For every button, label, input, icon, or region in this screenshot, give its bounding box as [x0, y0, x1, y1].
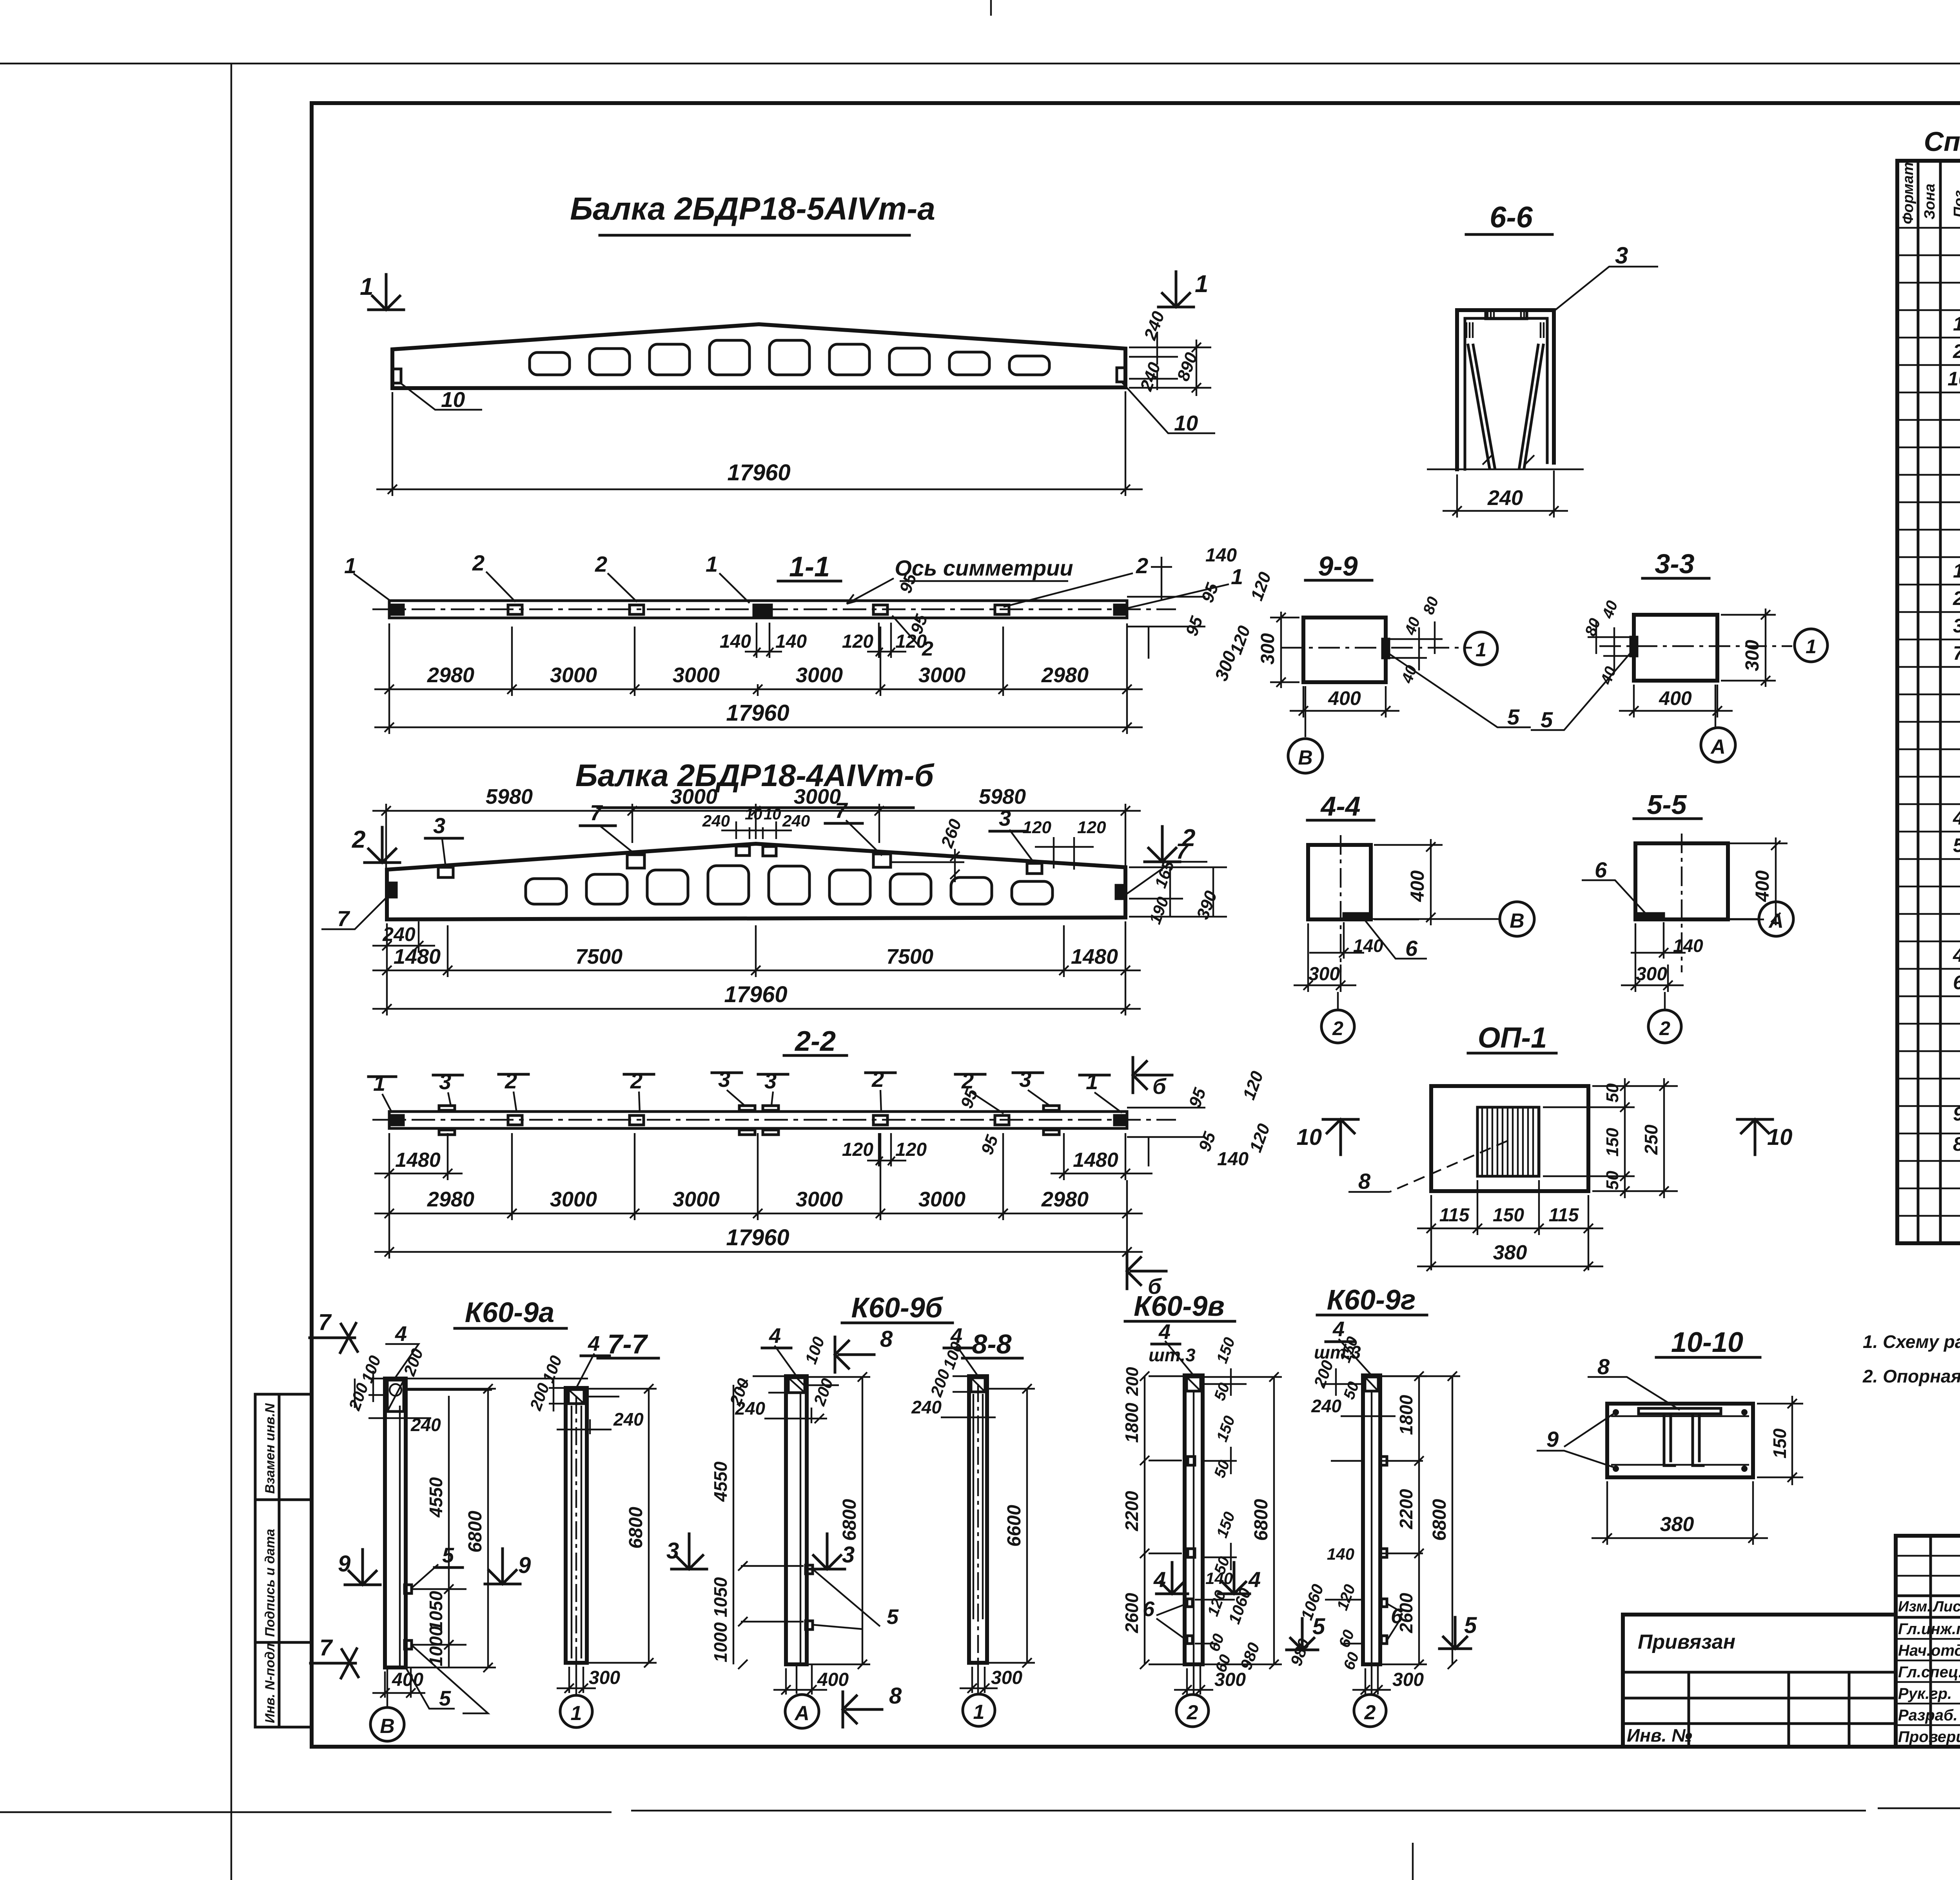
svg-text:1480: 1480 — [395, 1149, 441, 1172]
svg-text:6: 6 — [1405, 936, 1418, 961]
section 5-5 dim 400 — [1728, 837, 1788, 925]
column K60-9a plates pos5 on right face — [405, 1585, 412, 1649]
svg-text:6800: 6800 — [626, 1507, 646, 1549]
svg-text:120: 120 — [1023, 818, 1052, 837]
svg-text:140: 140 — [1205, 1569, 1233, 1588]
svg-text:3: 3 — [433, 813, 445, 838]
scan: bottom centre fold tick — [1412, 1843, 1414, 1880]
section 1-1 embedded plates — [390, 605, 1126, 615]
svg-text:В: В — [1510, 910, 1524, 932]
section 9-9 axis B circle — [1305, 686, 1306, 737]
svg-text:К60-9в: К60-9в — [1134, 1291, 1225, 1322]
section 6-6 dim 240 — [1443, 470, 1568, 518]
svg-text:7: 7 — [1176, 839, 1189, 863]
svg-text:120: 120 — [1077, 818, 1106, 837]
svg-text:1: 1 — [1195, 271, 1208, 298]
svg-text:240: 240 — [1487, 486, 1523, 510]
svg-text:7: 7 — [835, 798, 848, 823]
beam1 right label 10 with leader — [1122, 382, 1215, 433]
scan: top left small tick — [990, 0, 992, 16]
svg-text:5: 5 — [1953, 834, 1960, 856]
beam2 elevation outline — [387, 844, 1125, 919]
svg-text:2: 2 — [1659, 1017, 1670, 1039]
beam2 top dim row 5980 3000 3000 5980 — [372, 804, 1141, 868]
section 7-7 column body — [566, 1388, 587, 1663]
svg-text:А: А — [794, 1702, 809, 1725]
beam2 right end plate (pos 7) — [1116, 885, 1125, 899]
svg-text:140: 140 — [1673, 935, 1703, 956]
column K60-9v right dims 150 50 pairs — [1203, 1368, 1247, 1570]
beam2 right end dims 165 190 390 — [1129, 867, 1227, 917]
beam2 roof plate pos3 left — [438, 867, 453, 877]
svg-text:1: 1 — [1475, 639, 1486, 661]
svg-text:4: 4 — [1953, 807, 1960, 829]
svg-text:К60-9а: К60-9а — [465, 1297, 554, 1328]
svg-text:1-1: 1-1 — [789, 551, 830, 583]
svg-text:5: 5 — [887, 1605, 899, 1629]
svg-text:5-5: 5-5 — [1647, 789, 1687, 820]
svg-text:400: 400 — [1659, 687, 1692, 709]
svg-text:6600: 6600 — [1004, 1505, 1025, 1547]
column K60-9a dim 6800 — [406, 1384, 496, 1672]
svg-text:6: 6 — [1953, 972, 1960, 994]
column K60-9g right dims 1800 2200 2600 — [1380, 1376, 1427, 1664]
svg-text:1: 1 — [1806, 636, 1817, 658]
column K60-9v axis 2 — [1193, 1664, 1194, 1694]
beam2 section mark 2 (right) — [1145, 825, 1195, 862]
svg-text:2980: 2980 — [427, 663, 474, 687]
spec table column lines — [1918, 161, 1960, 1243]
svg-text:4: 4 — [1332, 1317, 1345, 1341]
section 1-1 dim 120 120 — [867, 623, 906, 658]
svg-text:А: А — [1768, 910, 1784, 932]
svg-text:150: 150 — [1603, 1128, 1622, 1157]
svg-text:Рук.гр.: Рук.гр. — [1898, 1685, 1952, 1702]
svg-text:10: 10 — [1174, 411, 1198, 435]
svg-text:9: 9 — [518, 1553, 531, 1578]
scan: left paper edge vertical line — [230, 64, 232, 1880]
section 3-3 block — [1634, 615, 1717, 681]
column K60-9b axis A — [796, 1664, 797, 1694]
section 9-9 dims 40 80 40 — [1390, 621, 1443, 670]
svg-text:150: 150 — [1493, 1205, 1524, 1226]
section 9-9 right edge plate pos5 — [1383, 639, 1389, 658]
svg-text:3-3: 3-3 — [1655, 549, 1694, 579]
svg-text:К60-9б: К60-9б — [851, 1292, 944, 1324]
svg-text:Балка 2БДР18-4АIVт-б: Балка 2БДР18-4АIVт-б — [575, 758, 935, 793]
section 1-1 callout 1c — [1126, 584, 1229, 609]
column K60-9b dims 4550 1050 1000 — [733, 1380, 804, 1669]
svg-text:1000: 1000 — [710, 1622, 731, 1662]
section 4-4 axis 2 circle — [1321, 1010, 1354, 1043]
svg-text:5: 5 — [439, 1687, 451, 1710]
beam 2BDR18-5AIVt-a elevation outline — [392, 324, 1125, 388]
svg-text:5980: 5980 — [979, 785, 1026, 808]
section 9-9 dim 400 — [1290, 686, 1399, 717]
svg-text:Проверил: Проверил — [1898, 1728, 1960, 1746]
svg-text:4: 4 — [1953, 944, 1960, 966]
svg-text:7: 7 — [319, 1635, 333, 1660]
svg-text:2. Опорная подушка замарк: 2. Опорная подушка замаркирована на лист… — [1862, 1366, 1960, 1386]
name rows lines — [1896, 1616, 1960, 1619]
svg-text:6: 6 — [1595, 857, 1607, 882]
section 1-1 dim 140 140 at centre — [745, 623, 782, 658]
section 5-5 axis A — [1728, 918, 1758, 920]
svg-text:1480: 1480 — [1071, 945, 1118, 968]
column K60-9a top cap plate pos4 — [387, 1380, 404, 1411]
svg-text:140: 140 — [1217, 1149, 1249, 1170]
svg-text:2: 2 — [1953, 587, 1960, 609]
svg-text:5: 5 — [1507, 705, 1520, 729]
svg-text:1800: 1800 — [1396, 1395, 1416, 1435]
svg-text:300: 300 — [1742, 640, 1763, 671]
svg-text:240: 240 — [613, 1409, 644, 1430]
svg-text:50: 50 — [1603, 1171, 1622, 1190]
svg-text:4550: 4550 — [710, 1461, 731, 1502]
drawing frame — [312, 103, 1960, 1747]
beam2 overall dim 17960 — [372, 977, 1141, 1015]
svg-text:2: 2 — [472, 550, 485, 575]
svg-text:Формат: Формат — [1900, 162, 1916, 224]
section mark 5 (down) — [1287, 1614, 1325, 1650]
section 8-8 column body — [969, 1376, 987, 1663]
svg-text:б: б — [1152, 1074, 1167, 1099]
svg-text:400: 400 — [1407, 870, 1428, 902]
section 3-3 left edge plate pos5 — [1631, 637, 1637, 656]
section 1-1 right tail lines — [1127, 597, 1205, 659]
svg-text:Нач.отд: Нач.отд — [1898, 1642, 1960, 1659]
svg-text:2: 2 — [1332, 1017, 1343, 1039]
svg-text:6: 6 — [1391, 1604, 1403, 1628]
svg-text:115: 115 — [1549, 1205, 1579, 1226]
svg-text:10: 10 — [441, 387, 465, 412]
svg-text:17960: 17960 — [727, 460, 790, 485]
svg-text:1: 1 — [1953, 313, 1960, 335]
beam2 ridge plates with dims 240 10 10 240 — [736, 846, 750, 856]
section mark 3 (left) — [666, 1534, 707, 1569]
OP-1 section mark 10 (left) — [1296, 1119, 1358, 1155]
svg-text:2: 2 — [1136, 553, 1148, 578]
svg-text:1: 1 — [571, 1702, 582, 1725]
section 1-1 centreline — [372, 609, 1176, 610]
section 4-4 bottom plate pos6 — [1344, 914, 1370, 919]
svg-text:3: 3 — [842, 1542, 855, 1568]
section 1-1 callout 2 — [486, 572, 515, 602]
section mark 8 (top, pointing left) — [835, 1326, 893, 1372]
beam2 section mark 2 (left) — [352, 826, 400, 863]
column K60-9b dim 400 — [773, 1665, 827, 1695]
svg-text:2980: 2980 — [1041, 1188, 1089, 1211]
svg-text:2: 2 — [922, 638, 933, 660]
svg-text:1: 1 — [973, 1701, 985, 1724]
left stamp strip — [255, 1394, 312, 1727]
column K60-9b label 5 — [813, 1569, 880, 1629]
svg-text:5: 5 — [1541, 707, 1553, 732]
svg-text:9: 9 — [1546, 1427, 1559, 1451]
svg-text:380: 380 — [1493, 1241, 1527, 1264]
svg-text:1050: 1050 — [426, 1591, 446, 1631]
svg-text:1480: 1480 — [394, 945, 441, 968]
section mark 7 (top left) — [310, 1310, 358, 1353]
svg-text:6800: 6800 — [1429, 1499, 1450, 1541]
svg-text:10: 10 — [1947, 368, 1960, 390]
svg-text:200: 200 — [1123, 1367, 1142, 1396]
svg-text:5: 5 — [1464, 1613, 1477, 1638]
column K60-9a dims 4550 1050 1000 — [412, 1396, 466, 1667]
section 3-3 label 5 leader — [1531, 651, 1632, 730]
svg-text:4: 4 — [769, 1324, 781, 1348]
section 2-2 beam plan bar — [389, 1112, 1127, 1128]
section 2-2 overall dim 17960 — [374, 1220, 1143, 1259]
svg-text:6: 6 — [1143, 1597, 1155, 1621]
section 2-2 dim 120 120 — [867, 1133, 906, 1166]
section 1-1 dim row 2980x3000s — [374, 623, 1143, 696]
beam2 roof plate pos3 right with dims 120 120 — [1027, 863, 1042, 874]
svg-text:240: 240 — [782, 812, 810, 830]
beam1 lightening holes — [530, 340, 1049, 375]
svg-text:3000: 3000 — [550, 1188, 597, 1211]
svg-text:300: 300 — [1258, 633, 1278, 665]
svg-text:3: 3 — [999, 806, 1011, 830]
svg-text:140: 140 — [775, 631, 807, 652]
svg-text:2200: 2200 — [1122, 1491, 1142, 1531]
column K60-9g body — [1363, 1375, 1380, 1664]
section 8-8 axis 1 — [977, 1663, 979, 1695]
column K60-9b dim 6800 — [807, 1372, 870, 1669]
section 3-3 dims 80 40 40 — [1588, 621, 1631, 670]
svg-text:8: 8 — [1597, 1354, 1610, 1379]
svg-text:В: В — [380, 1715, 395, 1738]
section 2-2 centreline — [372, 1119, 1176, 1121]
column K60-9a body — [385, 1379, 406, 1667]
svg-text:Гл.спец.: Гл.спец. — [1898, 1664, 1960, 1681]
svg-text:1: 1 — [1086, 1069, 1098, 1094]
section 4-4 dim 300 — [1294, 923, 1356, 992]
svg-text:7-7: 7-7 — [607, 1329, 648, 1359]
section mark 7 (bottom left) — [310, 1635, 358, 1678]
svg-text:2200: 2200 — [1396, 1489, 1416, 1529]
svg-text:2: 2 — [1187, 1701, 1198, 1724]
section 5-5 dim 140 — [1631, 922, 1686, 959]
svg-text:7: 7 — [337, 906, 350, 931]
svg-text:120: 120 — [842, 631, 873, 652]
column K60-9a dim 400 — [372, 1668, 425, 1698]
svg-text:10: 10 — [1296, 1124, 1322, 1150]
section mark 9 (left) — [338, 1549, 380, 1585]
svg-text:8: 8 — [1358, 1169, 1371, 1193]
svg-text:4: 4 — [1153, 1567, 1166, 1592]
column K60-9a label 5 (upper leader) — [411, 1564, 488, 1713]
section 1-1 overall dim 17960 — [374, 696, 1143, 734]
beam1 section mark 1 (left) — [360, 273, 404, 310]
section 4-4 label 6 leader — [1360, 914, 1427, 959]
section 3-3 axis A circle — [1715, 685, 1716, 727]
column K60-9b plates pos5 on right face — [806, 1565, 813, 1629]
svg-text:Зона: Зона — [1922, 183, 1938, 220]
scan: top paper edge line — [0, 63, 1960, 64]
section 2-2 dim 1480 left — [374, 1133, 463, 1180]
spec table row lines — [1897, 228, 1960, 1243]
column K60-9v plates on bar — [1187, 1457, 1195, 1644]
section 10-10 label 9 leaders — [1537, 1414, 1613, 1467]
svg-text:3000: 3000 — [796, 1188, 843, 1211]
svg-text:10: 10 — [764, 806, 781, 823]
section 7-7 label 4 — [576, 1353, 594, 1388]
svg-text:3000: 3000 — [673, 1188, 720, 1211]
svg-text:2980: 2980 — [1041, 663, 1089, 687]
column K60-9v body — [1185, 1375, 1203, 1664]
svg-text:2: 2 — [1364, 1701, 1376, 1724]
section 8-8 label 4 — [956, 1346, 978, 1376]
section 2-2 callouts 1 3 2 2 3 3 2 2 3 1 — [373, 1067, 1098, 1095]
beam2 left label 7 with leader — [321, 895, 389, 929]
svg-text:300: 300 — [1308, 964, 1340, 985]
section 10-10 top plate MI1-21 — [1639, 1408, 1721, 1414]
svg-text:120: 120 — [895, 1139, 927, 1160]
column K60-9a label 4 — [385, 1344, 419, 1379]
section 3-3 dim 300 — [1721, 609, 1776, 687]
svg-text:150: 150 — [1769, 1428, 1790, 1459]
svg-text:300: 300 — [991, 1667, 1022, 1688]
svg-text:3000: 3000 — [794, 785, 841, 808]
svg-text:ОП-1: ОП-1 — [1478, 1021, 1547, 1054]
svg-text:1000: 1000 — [426, 1626, 446, 1666]
section 5-5 axis 2 circle — [1648, 1010, 1681, 1043]
svg-text:140: 140 — [1327, 1545, 1354, 1563]
column K60-9a axis B — [387, 1667, 388, 1706]
section 4-4 block — [1308, 845, 1371, 919]
beam2 lightening holes — [526, 866, 1053, 904]
svg-text:250: 250 — [1641, 1124, 1661, 1155]
svg-text:4: 4 — [1158, 1320, 1171, 1344]
svg-text:140: 140 — [720, 631, 751, 652]
svg-text:6800: 6800 — [839, 1499, 860, 1541]
svg-text:400: 400 — [817, 1669, 849, 1690]
section 1-1 callout 2b — [608, 573, 637, 602]
beam2 dim 240 left bottom — [372, 921, 435, 953]
section 6-6 bottom ground line — [1427, 455, 1584, 469]
svg-text:4: 4 — [588, 1332, 600, 1355]
svg-text:7500: 7500 — [575, 945, 622, 968]
section 10-10 anchor hooks — [1664, 1414, 1703, 1466]
section 3-3 centreline to axis 1 — [1599, 645, 1792, 647]
column K60-9v dim 6800 — [1203, 1372, 1282, 1669]
svg-text:2: 2 — [871, 1067, 884, 1092]
column K60-9g label 6 leaders — [1387, 1604, 1402, 1640]
svg-text:140: 140 — [1353, 935, 1383, 956]
svg-text:9-9: 9-9 — [1318, 551, 1357, 581]
section 10-10 mesh C20 bars (dots) — [1613, 1409, 1748, 1472]
svg-text:50: 50 — [1603, 1083, 1622, 1103]
OP-1 bottom dims 115 150 115 380 — [1417, 1180, 1603, 1270]
section 10-10 dim 380 — [1592, 1481, 1768, 1545]
svg-text:2-2: 2-2 — [794, 1026, 836, 1057]
svg-text:Лист: Лист — [1932, 1598, 1960, 1615]
svg-text:3: 3 — [439, 1069, 451, 1094]
section 9-9 label 5 leader — [1388, 653, 1531, 727]
svg-text:3000: 3000 — [550, 663, 597, 687]
section 8-8 top cap plate pos4 — [971, 1378, 985, 1392]
svg-text:Привязан: Привязан — [1638, 1631, 1735, 1653]
svg-text:400: 400 — [1752, 870, 1773, 902]
privyazan box — [1623, 1615, 1896, 1747]
svg-text:Поз.: Поз. — [1951, 186, 1960, 218]
svg-text:Подпись и дата: Подпись и дата — [263, 1529, 278, 1637]
svg-text:3000: 3000 — [670, 785, 717, 808]
svg-text:2: 2 — [352, 826, 365, 853]
svg-text:300: 300 — [1214, 1669, 1246, 1690]
section 7-7 axis 1 — [575, 1663, 577, 1695]
svg-text:1. Схему расположения калонн: 1. Схему расположения калонн и балок см.… — [1863, 1331, 1960, 1352]
svg-text:А: А — [1710, 736, 1726, 758]
section 2-2 dim row 2980 3000s — [374, 1133, 1143, 1220]
svg-text:1: 1 — [1953, 560, 1960, 582]
column K60-9g top dim 240 — [1341, 1415, 1396, 1417]
svg-text:17960: 17960 — [726, 700, 789, 726]
section 2-2 dim 1480 right — [1051, 1133, 1152, 1180]
section mark 9 (right) — [485, 1549, 531, 1584]
section 7-7 dim 300 — [557, 1667, 596, 1693]
svg-text:1: 1 — [344, 553, 356, 578]
svg-text:8: 8 — [889, 1683, 902, 1709]
beam2 left end plate (pos 7) — [387, 883, 396, 897]
svg-text:140: 140 — [1205, 545, 1237, 566]
svg-text:Инв. №: Инв. № — [1627, 1725, 1692, 1746]
beam1 left label 10 with leader — [399, 382, 482, 410]
section 2-2 right tail — [1127, 1108, 1205, 1166]
svg-text:3000: 3000 — [673, 663, 720, 687]
svg-text:3: 3 — [1019, 1067, 1031, 1092]
svg-text:Спецификация изделий на оди: Спецификация изделий на один элемент — [1924, 126, 1960, 157]
svg-text:1: 1 — [1231, 564, 1243, 589]
svg-text:2: 2 — [630, 1068, 642, 1093]
svg-text:17960: 17960 — [726, 1225, 789, 1250]
svg-text:3000: 3000 — [918, 1188, 965, 1211]
section 1-1 callout 1b — [719, 573, 750, 603]
spec table outer border — [1897, 161, 1960, 1243]
section mark 4 pair — [1153, 1562, 1188, 1594]
svg-text:Гл.инж.пр.: Гл.инж.пр. — [1898, 1620, 1960, 1638]
beam1 overall dimension 17960 — [376, 391, 1143, 496]
section 4-4 dim 400 — [1374, 839, 1443, 925]
beam1 end plates (pos 10) — [392, 368, 1125, 383]
section 6-6 inner tapering legs — [1468, 345, 1543, 469]
column K60-9g axis 2 — [1371, 1664, 1372, 1694]
beam1 section mark 1 (right) — [1158, 271, 1208, 307]
svg-text:240: 240 — [911, 1397, 942, 1417]
svg-text:8-8: 8-8 — [972, 1329, 1011, 1359]
section 9-9 block — [1303, 618, 1386, 682]
section mark K-b (above K60-9v) — [1127, 1253, 1166, 1299]
svg-text:шт.3: шт.3 — [1149, 1345, 1196, 1365]
svg-text:10: 10 — [745, 806, 762, 823]
section 8-8 dim 300 — [960, 1667, 998, 1693]
svg-text:240: 240 — [382, 923, 416, 945]
section 3-3 dim 400 — [1619, 685, 1733, 717]
svg-text:Изм.: Изм. — [1898, 1598, 1931, 1615]
column K60-9g dim 300 — [1352, 1665, 1391, 1695]
section 6-6 channel outline — [1457, 310, 1554, 469]
svg-text:300: 300 — [1392, 1669, 1424, 1690]
svg-text:В: В — [1298, 747, 1313, 769]
section 10-10 label 8 leader — [1588, 1377, 1680, 1410]
OP-1 label 8 leader — [1390, 1141, 1507, 1192]
svg-text:120: 120 — [842, 1139, 873, 1160]
svg-text:4550: 4550 — [426, 1477, 446, 1518]
svg-text:Взамен инв.N: Взамен инв.N — [263, 1403, 278, 1494]
section mark K-b (right of 2-2) — [1133, 1057, 1172, 1099]
svg-text:240: 240 — [735, 1398, 765, 1419]
